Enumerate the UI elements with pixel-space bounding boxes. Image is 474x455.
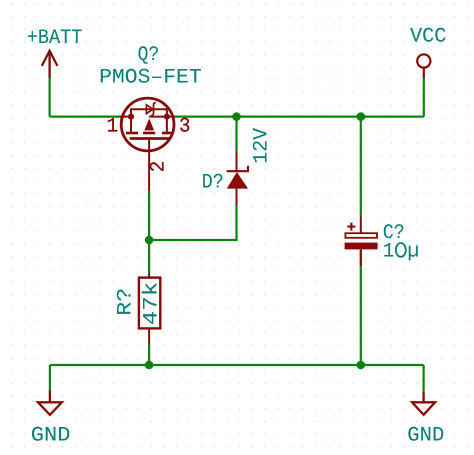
capacitor bottom plate [345,243,378,250]
junction gate node [145,236,154,245]
svg-text:3: 3 [179,116,191,139]
junction resistor / bottom rail [145,361,154,370]
svg-text:GND: GND [407,424,444,447]
capacitor C? [345,217,378,266]
capacitor top pin [360,217,362,234]
capacitor bottom pin [360,249,362,266]
svg-text:1: 1 [107,116,119,139]
zener triangle [227,172,248,189]
mosfet gate bar [130,137,170,140]
mosfet drain leg [166,117,168,132]
capacitor top plate [345,233,377,238]
wire bottom rail [50,364,424,366]
ground symbol left [38,391,62,415]
wire right GND stem [423,365,425,392]
wire mosfet gate down [148,191,150,240]
transistor Q? PMOS-FET [120,98,175,191]
resistor bottom pin [148,328,150,344]
mosfet gate pin [148,139,150,192]
svg-text:R?: R? [114,288,137,316]
svg-text:µ: µ [407,240,419,263]
resistor R? [139,273,160,344]
wire +BATT stem [48,78,50,117]
ground symbol right [412,392,435,415]
zener diode D? [227,152,248,207]
mosfet body diode cathode bar [151,102,155,116]
zener cathode bar [227,166,248,171]
wire zener top [235,117,237,152]
mosfet right channel bar [162,132,172,135]
mosfet middle channel bar [143,132,155,135]
svg-text:1: 1 [383,240,394,263]
svg-text:D?: D? [202,172,224,195]
svg-text:47k: 47k [141,282,164,326]
resistor top pin [148,273,150,278]
mosfet source leg [130,117,132,132]
wire VCC stem [423,78,425,117]
svg-text:Q?: Q? [138,44,160,67]
wire left GND stem [49,365,51,391]
mosfet left channel bar [126,132,138,135]
mosfet substrate arrow [144,118,154,130]
wire capacitor bottom [360,249,362,365]
power symbol VCC [417,54,430,78]
wire capacitor top [360,117,362,217]
power symbol +BATT [42,51,58,78]
svg-text:VCC: VCC [410,26,446,49]
svg-text:+BATT: +BATT [27,27,83,50]
mosfet drain pin interior [167,116,175,118]
wire main top rail right [174,115,424,117]
svg-text:12V: 12V [251,127,274,164]
junction at zener / top rail [232,112,241,121]
mosfet drain contact dot [164,114,170,120]
capacitor plus sign [347,223,355,231]
svg-text:PMOS–FET: PMOS–FET [99,66,202,89]
junction at capacitor / top rail [357,112,366,121]
mosfet body-diode path [131,109,167,116]
wire gate node to resistor [148,240,150,273]
mosfet source contact dot [128,114,134,120]
wire resistor to bottom rail [148,344,150,365]
wire main top rail left [50,115,122,117]
mosfet body circle [121,98,174,151]
resistor body [139,278,160,329]
mosfet drain link [149,116,167,118]
junction capacitor / bottom rail [357,361,366,370]
svg-text:2: 2 [147,161,170,173]
mosfet source pin interior [120,116,131,118]
zener bottom pin [236,189,238,206]
zener top pin [236,152,238,172]
mosfet body diode triangle [146,105,153,114]
svg-text:GND: GND [31,425,71,448]
wire zener bottom to gate node [149,206,236,240]
